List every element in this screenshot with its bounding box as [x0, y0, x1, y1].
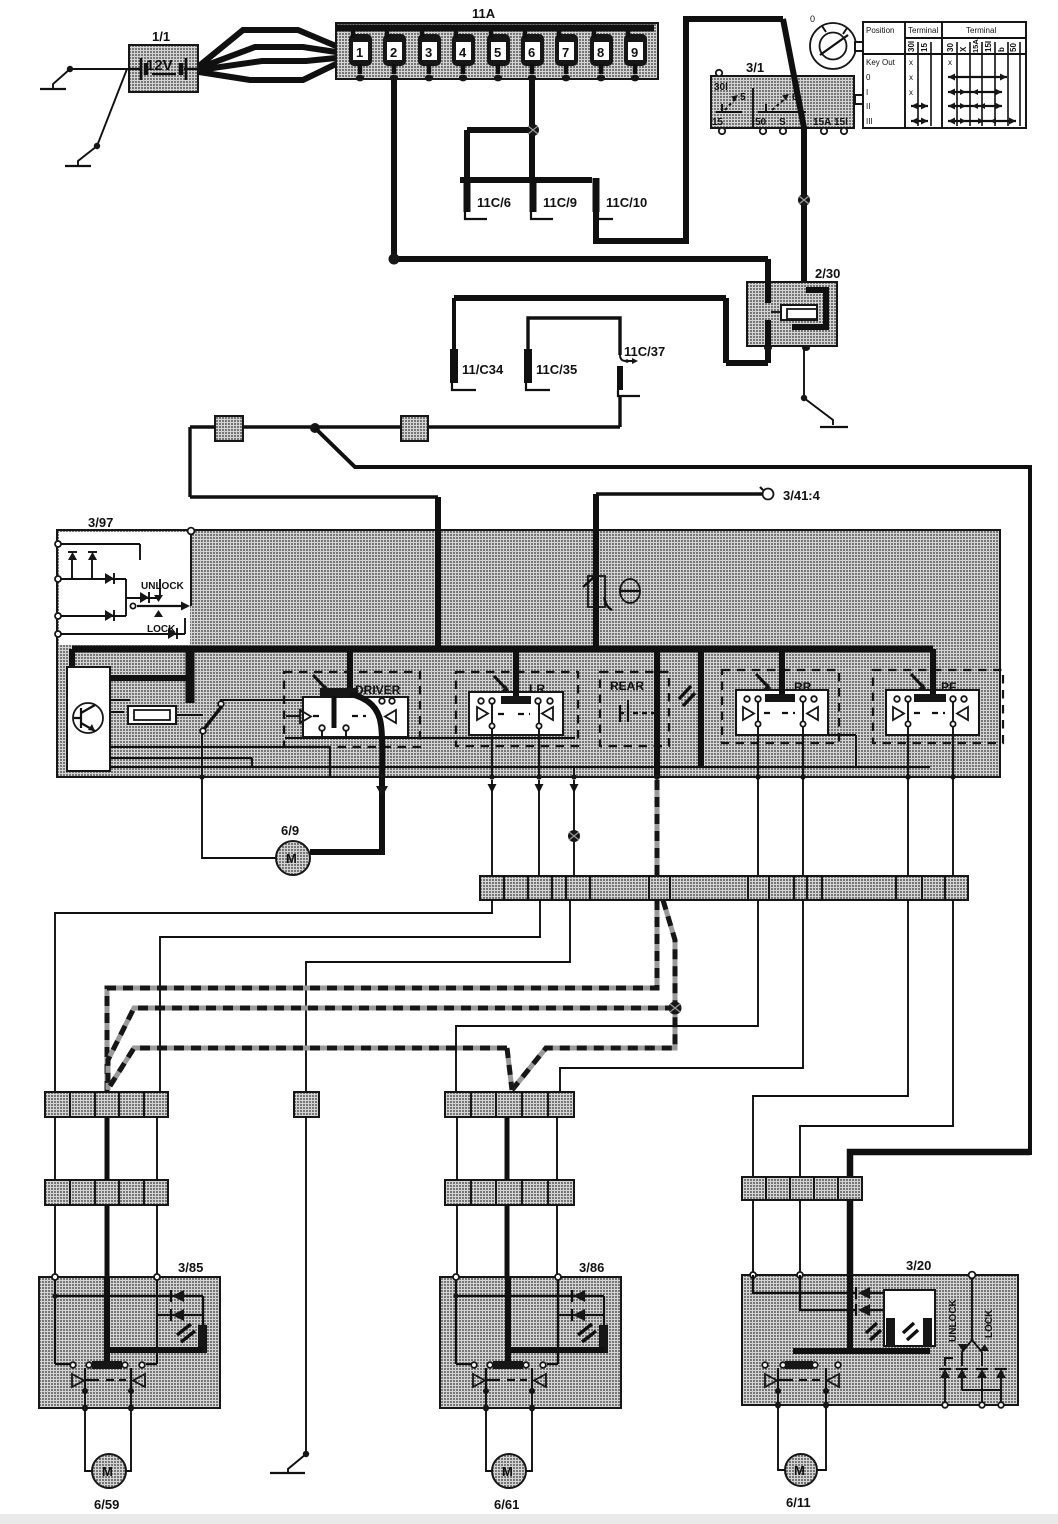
connector 11C/10: [596, 178, 647, 219]
connector 11C/6: [465, 180, 511, 219]
wire 11C/10 to ignition switch 3/1: [596, 19, 783, 241]
svg-text:Terminal: Terminal: [966, 26, 996, 35]
wire strip to left strip cell1: [55, 900, 492, 1092]
wire strip to middle strip cell5: [560, 900, 803, 1092]
ignition key symbol: [810, 14, 863, 69]
wires between middle strips and into 3/86: [457, 1117, 557, 1278]
middle ground connector square: [294, 1092, 319, 1117]
svg-text:5: 5: [740, 92, 746, 103]
node junction fuse2 wire: [389, 254, 400, 265]
connector 11C/9: [531, 180, 577, 219]
svg-text:M: M: [102, 1464, 113, 1479]
wire feed into 3/97 at x596: [593, 494, 599, 532]
wire drop x574 from rail to below: [573, 767, 575, 777]
wire feed into 3/97 at x438: [435, 497, 441, 532]
svg-text:LOCK: LOCK: [147, 624, 176, 635]
driver cell dashed box: [284, 672, 420, 747]
svg-text:Terminal: Terminal: [908, 26, 938, 35]
wire strip to right strip cell1: [753, 900, 908, 1177]
wire 3/1 terminal to relay 2/30: [801, 128, 807, 292]
PF cell dashed box: [873, 670, 1003, 743]
wire thick drop x657 inside 3/97: [654, 649, 660, 777]
svg-text:7: 7: [562, 45, 569, 60]
svg-text:4: 4: [459, 45, 467, 60]
motor 6/11: [785, 1454, 817, 1510]
wire distribution line y427: [190, 427, 620, 497]
LR cell dashed box: [456, 672, 578, 746]
connector 11/C34: [452, 298, 504, 390]
wire battery negative to grounds: [53, 66, 129, 166]
wire bus to left panel: [69, 649, 75, 667]
svg-text:UNLOCK: UNLOCK: [141, 581, 185, 592]
svg-text:3: 3: [425, 45, 432, 60]
wire harness battery to fuse box 11A: [199, 30, 336, 80]
svg-text:8: 8: [597, 45, 604, 60]
wires between left strips and into 3/85: [55, 1117, 157, 1277]
right connector strip: [742, 1177, 862, 1200]
RR cell: [736, 649, 856, 777]
svg-text:3/97: 3/97: [88, 515, 113, 530]
svg-text:6/9: 6/9: [281, 823, 299, 838]
ground (battery, upper): [40, 88, 66, 90]
fuse 2: [383, 28, 406, 81]
fuse 8: [590, 28, 613, 81]
svg-text:15: 15: [712, 117, 724, 128]
wire thick dashed drop x657 to strip: [655, 780, 660, 876]
left connector strip lower: [45, 1180, 168, 1205]
switch in 3/97: [200, 700, 303, 734]
svg-text:5: 5: [494, 45, 501, 60]
svg-text:11A: 11A: [472, 6, 496, 21]
wire dashed thick run y1008 via junction: [108, 900, 675, 1090]
wire fuse 6 to connector bus: [460, 80, 592, 180]
wire 2/30 to ground: [801, 346, 833, 425]
svg-text:12V: 12V: [146, 57, 173, 74]
wire 11C/37 down to distribution line: [618, 396, 621, 427]
diode network left of 3/97: [55, 541, 185, 639]
fuse 3: [418, 28, 441, 81]
node pins on 3/97 bottom edge: [199, 774, 955, 780]
wire strip to left strip cell5: [160, 900, 540, 1092]
middle connector strip upper: [445, 1092, 574, 1117]
svg-text:II: II: [866, 102, 870, 111]
svg-text:LOCK: LOCK: [984, 1309, 995, 1338]
fuse 7: [555, 28, 578, 81]
fuse 5: [487, 28, 510, 81]
svg-text:15: 15: [920, 43, 929, 52]
wire feeds inside 3/97 top: [438, 530, 596, 649]
fuse 1: [349, 28, 372, 81]
wire dashed thick run y988: [107, 900, 657, 1092]
wire junction to right-edge feed: [315, 428, 1030, 1155]
node junction x574: [568, 830, 580, 842]
svg-text:UNLOCK: UNLOCK: [948, 1298, 959, 1342]
svg-text:6: 6: [528, 45, 535, 60]
relay 2/30: [454, 266, 840, 363]
wire strip to middle strip cell1: [456, 900, 758, 1092]
svg-text:M: M: [794, 1463, 805, 1478]
fuse 4: [452, 28, 475, 81]
svg-text:x: x: [909, 73, 913, 82]
wire right edge feed to 3/20: [850, 1152, 1030, 1275]
wire drops 3/97 to main connector strip: [492, 777, 953, 876]
svg-text:11C/9: 11C/9: [543, 195, 577, 210]
thermostat symbol: [620, 579, 640, 603]
wire thick drop x701 inside 3/97: [698, 649, 704, 767]
svg-text:30l: 30l: [907, 41, 916, 52]
svg-text:50: 50: [755, 117, 767, 128]
wire terminal to unlock arrow: [190, 534, 192, 606]
wire panel to thick stub: [110, 675, 190, 681]
motor 6/61: [492, 1454, 526, 1512]
wire 3/41:4 tap: [596, 487, 821, 503]
door lock unit 3/85: [39, 1260, 220, 1412]
resistor PTC element on x596: [583, 576, 612, 610]
svg-text:3/86: 3/86: [579, 1260, 604, 1275]
ground (relay 2/30): [820, 426, 848, 428]
svg-text:1: 1: [356, 45, 363, 60]
node junction on wire to 2/30: [798, 194, 810, 206]
wire strip to right strip cell3: [800, 900, 953, 1177]
battery 1/1: [129, 29, 198, 92]
transistor panel: [67, 667, 110, 771]
thick stub from bus: [186, 649, 195, 703]
svg-text:3/20: 3/20: [906, 1258, 931, 1273]
svg-text:0: 0: [866, 73, 871, 82]
svg-text:11C/6: 11C/6: [477, 195, 511, 210]
PF cell: [886, 649, 979, 777]
wires 3/20 to motor 6/11: [778, 1407, 826, 1470]
SEC6: [0, 1514, 1058, 1524]
fuse box 11A: [336, 6, 658, 79]
wire 3/97 to motor 6/9 right (thick): [310, 777, 382, 852]
ground (battery, lower): [65, 165, 91, 167]
svg-text:9: 9: [631, 45, 638, 60]
table position/terminal: [855, 22, 1026, 128]
svg-text:30: 30: [946, 43, 955, 52]
unlock/lock switch labels: [130, 581, 190, 635]
control module 3/97: [57, 515, 1000, 777]
svg-text:50: 50: [1009, 43, 1018, 52]
svg-text:x: x: [948, 58, 952, 67]
LR cell: [469, 649, 563, 777]
svg-text:11C/35: 11C/35: [536, 362, 577, 377]
middle connector strip lower: [445, 1180, 574, 1205]
door lock unit 3/20: [742, 1258, 1018, 1409]
svg-text:Position: Position: [866, 26, 894, 35]
svg-text:0: 0: [810, 14, 815, 24]
svg-text:15A: 15A: [813, 117, 831, 128]
svg-text:2/30: 2/30: [815, 266, 840, 281]
svg-text:III: III: [866, 117, 873, 126]
fuse 9: [624, 28, 647, 81]
connector square right on y427: [401, 416, 428, 441]
wires 3/86 to motor 6/61: [486, 1410, 532, 1471]
svg-text:15I: 15I: [984, 41, 993, 52]
motor 6/59: [92, 1454, 126, 1512]
resistor marks between REAR and RR: [679, 686, 695, 706]
left connector strip upper: [45, 1092, 168, 1117]
svg-text:b: b: [997, 47, 1006, 52]
main connector strip: [480, 876, 968, 900]
wires 3/85 to motor 6/59: [85, 1410, 131, 1471]
svg-text:x: x: [909, 88, 913, 97]
svg-text:15l: 15l: [834, 117, 848, 128]
ground (middle bottom): [270, 1472, 305, 1474]
transistor Q1: [73, 703, 103, 733]
RR cell dashed box: [722, 670, 839, 743]
REAR cell: [610, 679, 658, 722]
motor 6/9: [276, 823, 310, 875]
node junction dashed wires: [669, 1002, 682, 1015]
svg-text:6/11: 6/11: [786, 1495, 811, 1510]
relay coil symbol in 3/97: [110, 700, 203, 724]
svg-text:11/C34: 11/C34: [462, 362, 504, 377]
node junction y427: [310, 423, 320, 433]
svg-text:1/1: 1/1: [152, 29, 170, 44]
svg-text:3/1: 3/1: [746, 60, 764, 75]
svg-text:x: x: [909, 58, 913, 67]
connector square left on y427: [215, 416, 243, 441]
svg-text:3/85: 3/85: [178, 1260, 203, 1275]
wires right strip into 3/20: [753, 1200, 800, 1275]
svg-text:X: X: [959, 46, 968, 52]
wire fuse 2 to junction and relay 2/30 coil: [394, 80, 768, 302]
unlock/lock switch section of 3/20: [939, 1278, 1007, 1408]
fuse 6: [521, 28, 544, 81]
svg-text:6/59: 6/59: [94, 1497, 119, 1512]
door lock unit 3/86: [440, 1260, 621, 1412]
svg-text:M: M: [502, 1464, 513, 1479]
svg-text:I: I: [866, 88, 868, 97]
svg-text:3/41:4: 3/41:4: [783, 488, 821, 503]
svg-text:15A: 15A: [971, 39, 980, 53]
svg-text:REAR: REAR: [610, 679, 644, 693]
node terminal top edge of 3/97: [188, 528, 195, 535]
svg-text:S: S: [779, 117, 786, 128]
REAR cell dashed box: [600, 672, 669, 746]
wire ignition feed diagonal through 3/1: [783, 19, 804, 128]
svg-text:6/61: 6/61: [494, 1497, 519, 1512]
node junction fuse6 wire: [527, 124, 539, 136]
svg-text:11C/10: 11C/10: [606, 195, 647, 210]
wire rails lower 3/97: [110, 733, 930, 777]
wire 3/97 to motor 6/9 left: [202, 777, 276, 858]
wire middle connector to ground: [288, 1117, 309, 1472]
driver cell: [286, 649, 408, 777]
svg-text:M: M: [286, 851, 297, 866]
connector 11C/37: [618, 344, 665, 396]
svg-text:30l: 30l: [714, 82, 728, 93]
bus bar inside 3/97: [72, 646, 933, 653]
connector 11C/35: [526, 318, 620, 390]
svg-text:Key Out: Key Out: [866, 58, 896, 67]
svg-text:2: 2: [390, 45, 397, 60]
ignition switch 3/1: [711, 60, 865, 134]
svg-text:11C/37: 11C/37: [624, 344, 665, 359]
wire strip to middle ground connector: [306, 900, 570, 1092]
arrow marks below 3/97: [376, 784, 579, 797]
